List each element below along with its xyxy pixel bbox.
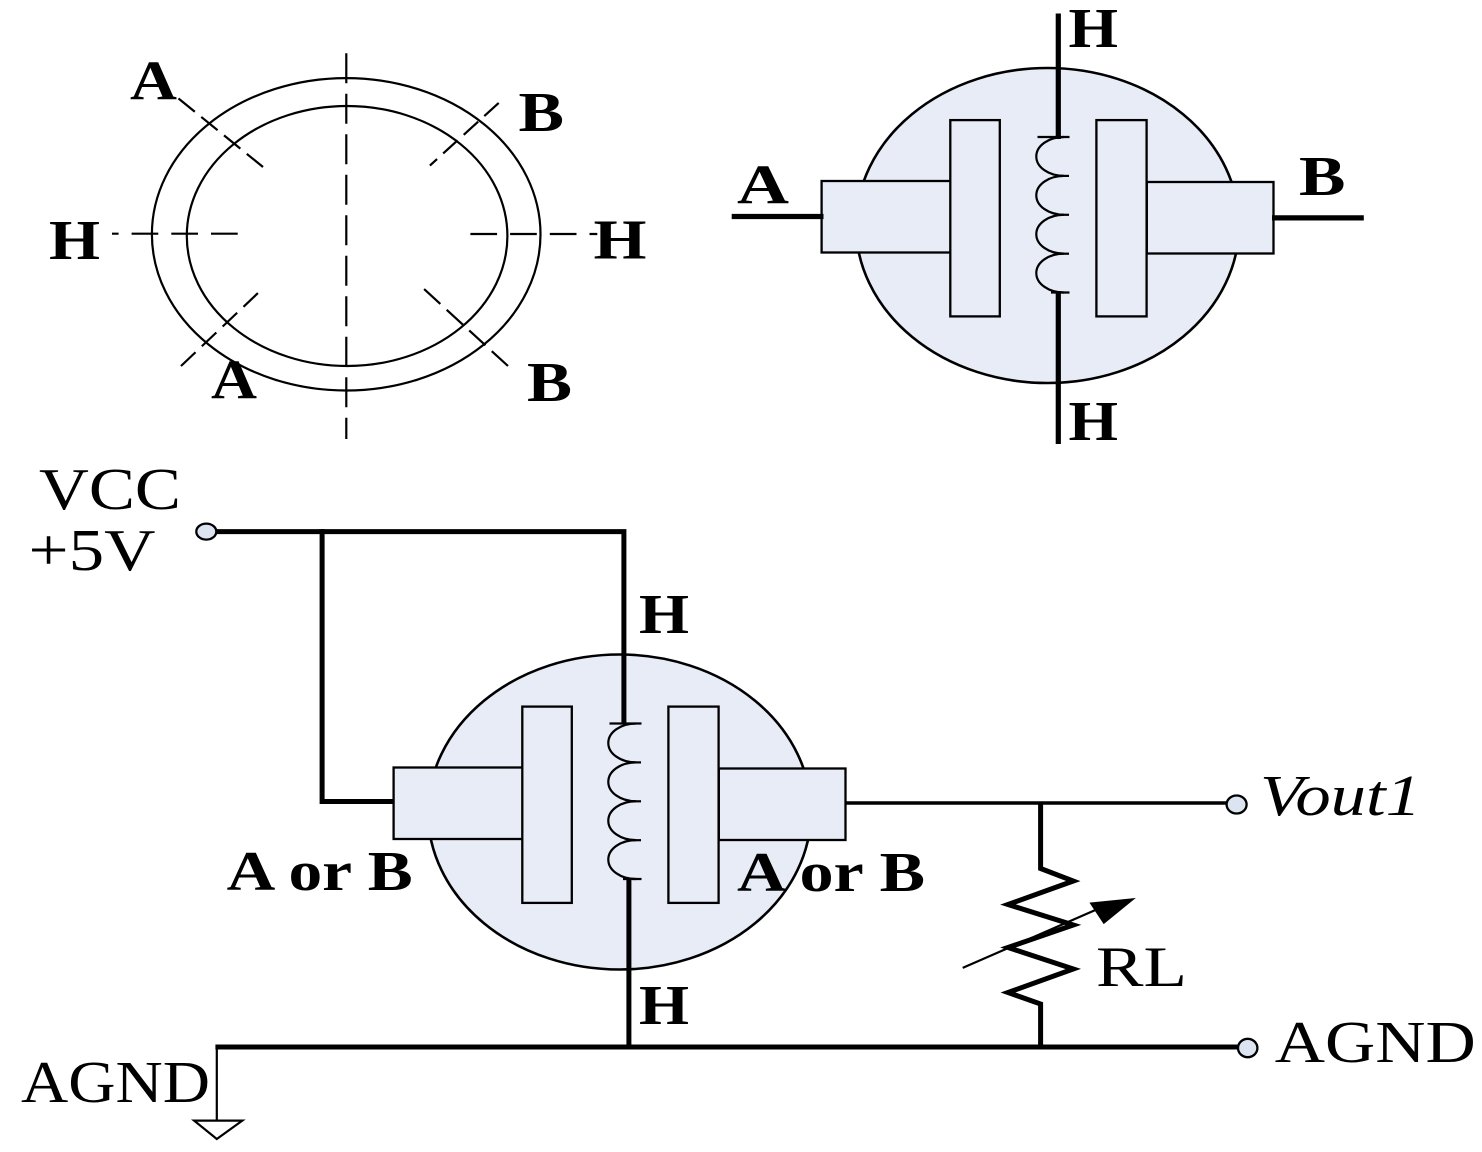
svg-text:H: H [639, 584, 689, 646]
svg-text:H: H [639, 975, 689, 1037]
svg-text:H: H [49, 210, 100, 272]
svg-text:A or B: A or B [737, 842, 925, 904]
svg-text:H: H [594, 210, 647, 272]
svg-text:+5V: +5V [29, 517, 156, 583]
svg-text:AGND: AGND [1275, 1009, 1476, 1075]
svg-text:AGND: AGND [21, 1049, 210, 1115]
svg-text:VCC: VCC [39, 456, 181, 522]
svg-text:A: A [737, 155, 790, 217]
svg-text:H: H [1069, 0, 1119, 60]
svg-text:B: B [527, 352, 572, 414]
svg-text:A or B: A or B [227, 841, 413, 903]
svg-text:A: A [130, 51, 178, 113]
svg-text:H: H [1069, 391, 1119, 453]
svg-text:B: B [1299, 146, 1346, 208]
svg-text:RL: RL [1096, 936, 1187, 999]
svg-text:B: B [519, 82, 565, 144]
svg-text:Vout1: Vout1 [1260, 763, 1421, 828]
svg-text:A: A [211, 349, 258, 411]
